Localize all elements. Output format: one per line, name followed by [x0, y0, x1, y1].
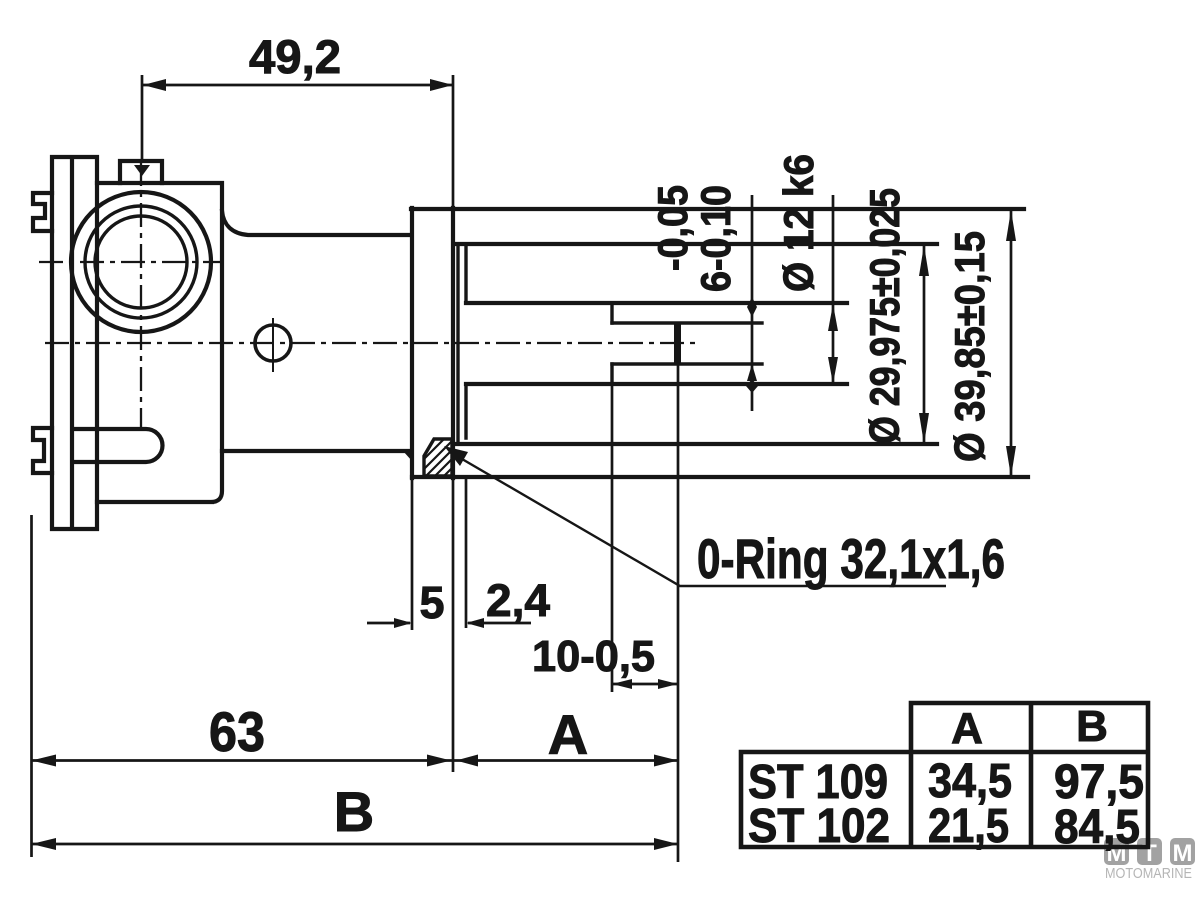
svg-text:-0,05: -0,05 [649, 185, 696, 271]
housing top line [411, 207, 1024, 211]
arrow A right [654, 755, 678, 767]
svg-text:A: A [951, 704, 983, 753]
bore face edges [464, 244, 467, 438]
svg-text:Ø 29,975±0,025: Ø 29,975±0,025 [861, 188, 908, 444]
main shaft centerline [45, 342, 697, 344]
shaft top line [466, 301, 847, 305]
svg-text:49,2: 49,2 [249, 30, 341, 83]
long extension line through flange [452, 75, 455, 772]
dimension line 63 / A [32, 759, 679, 762]
svg-text:0-Ring 32,1x1,6: 0-Ring 32,1x1,6 [697, 527, 1005, 590]
cavity floor line [222, 449, 409, 453]
bore circle outer [71, 192, 211, 332]
dimension line 49,2 [143, 84, 453, 87]
dimension line Ø29,975 [923, 245, 926, 444]
shaft end groove bar [674, 322, 681, 365]
MTM Motomarine logo (under the ink) [1104, 838, 1195, 882]
svg-text:2,4: 2,4 [486, 575, 550, 626]
arrow Ø29,975 upper [919, 245, 929, 276]
circle horizontal centerline [39, 261, 224, 263]
arrow A left [456, 755, 478, 767]
svg-text:M: M [1173, 840, 1193, 867]
svg-text:B: B [334, 780, 374, 843]
housing bottom line [412, 475, 1028, 479]
bore circle inner [95, 216, 187, 308]
arrow Ø39,85 lower [1006, 446, 1016, 477]
O-ring section hatched [424, 439, 452, 476]
top boss [120, 161, 162, 183]
svg-text:6-0,10: 6-0,10 [692, 185, 739, 292]
dimension line 5 [367, 622, 410, 625]
dimension line 2,4 [468, 622, 531, 625]
dimension 5 extension [411, 478, 414, 630]
arrow Ø39,85 upper [1006, 210, 1016, 241]
lower mounting tab [33, 428, 52, 473]
arrow 63 right [427, 755, 451, 767]
arrow 10-0,5 right [658, 679, 678, 689]
front flange left edge [410, 208, 414, 478]
svg-text:ST 102: ST 102 [748, 800, 890, 853]
arrow 5 [394, 618, 412, 628]
O-ring leader line [450, 452, 946, 586]
shaft bottom line [466, 382, 847, 386]
T-slot cutout [73, 429, 163, 462]
mounting flange plate [52, 157, 97, 529]
dimension line Ø39,85 [1010, 209, 1013, 477]
arrow Ø12 lower [828, 357, 838, 384]
dimension 10-0,5 extension left [611, 384, 614, 692]
dimension 63 B left extension [30, 515, 33, 857]
svg-text:10-0,5: 10-0,5 [532, 632, 655, 681]
dimension 2,4 extension [465, 476, 468, 628]
dimension line 10-0,5 [612, 683, 678, 686]
shaft end flat top [612, 321, 762, 324]
dimension line 6-0,10 [751, 195, 754, 411]
bore circle middle [85, 206, 197, 318]
svg-text:5: 5 [419, 577, 444, 628]
shaft step edges [610, 303, 613, 384]
svg-text:MOTOMARINE: MOTOMARINE [1105, 865, 1192, 882]
svg-text:84,5: 84,5 [1054, 801, 1140, 854]
svg-text:B: B [1076, 702, 1108, 751]
bore top line [457, 242, 937, 246]
svg-text:63: 63 [209, 700, 265, 763]
O-ring groove wall [456, 244, 459, 444]
diamond arrow 6 upper [747, 297, 757, 317]
svg-text:Ø 12 k6: Ø 12 k6 [775, 154, 822, 292]
small hole with crosshair [255, 325, 291, 361]
upper mounting tab [33, 193, 52, 231]
shaft end flat bottom [612, 362, 762, 365]
arrow Ø12 upper [828, 304, 838, 331]
dimension 10-0,5 extension right / A B right extension [677, 364, 680, 862]
arrow 49,2 right [430, 79, 453, 91]
boss tick arrow [134, 165, 150, 176]
arrow 6 lower [747, 364, 757, 381]
svg-text:21,5: 21,5 [928, 800, 1009, 853]
arrow Ø29,975 lower [919, 413, 929, 444]
arrow 49,2 left [143, 79, 166, 91]
arrow 10-0,5 left [612, 679, 632, 689]
pump body outline [97, 183, 222, 502]
svg-text:A: A [548, 703, 588, 766]
cavity floor corner wedge [403, 451, 412, 461]
circle vertical centerline [140, 162, 142, 428]
body step to mid section [222, 211, 411, 235]
arrow B right [654, 838, 678, 850]
dimension line Ø12 k6 [832, 195, 835, 384]
arrow B left [32, 838, 57, 850]
diamond arrow 6 bottom [746, 379, 758, 393]
leader arrowhead [444, 446, 468, 466]
arrow 63 left [32, 755, 57, 767]
svg-text:Ø 39,85±0,15: Ø 39,85±0,15 [946, 231, 993, 462]
dimension line B [32, 843, 679, 846]
bore bottom line [457, 442, 937, 446]
arrow 2,4 [466, 618, 484, 628]
table frame [741, 703, 1148, 847]
dimension 49,2 extension left [141, 75, 144, 162]
